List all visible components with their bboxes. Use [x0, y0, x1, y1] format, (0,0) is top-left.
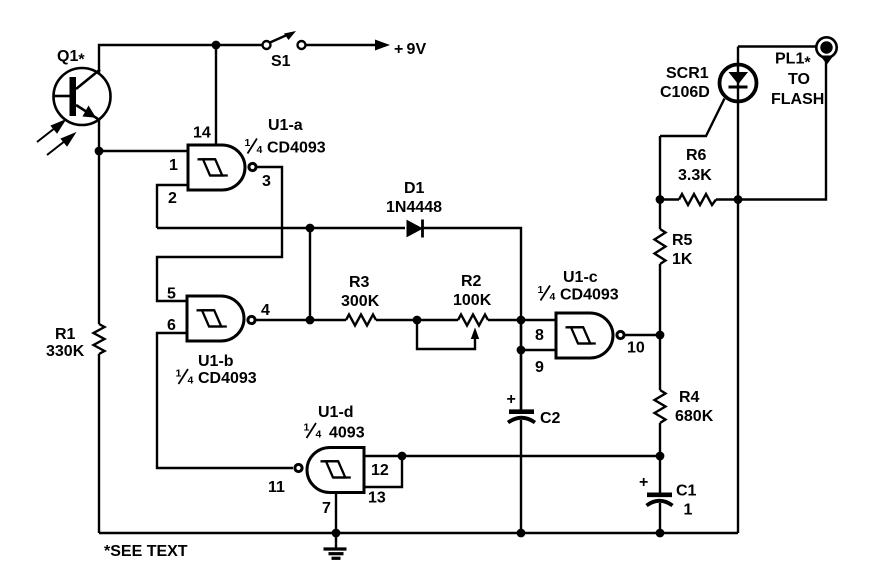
- svg-text:1N4448: 1N4448: [386, 199, 442, 216]
- svg-text:4: 4: [188, 375, 194, 387]
- svg-text:7: 7: [322, 500, 331, 517]
- svg-text:14: 14: [193, 125, 211, 142]
- wire: R3 to wiper node: [376, 319, 458, 321]
- svg-text:10: 10: [627, 340, 645, 357]
- svg-text:FLASH: FLASH: [771, 91, 824, 108]
- node: R6/R5 junction: [656, 195, 665, 204]
- wire: U1-d pin 7 to ground: [335, 493, 337, 550]
- wire: SCR anode to top: [737, 47, 739, 63]
- wire: vertical through C2 top: [520, 320, 522, 412]
- label 1/4 CD4093: [245, 137, 326, 157]
- svg-text:3.3K: 3.3K: [678, 167, 712, 184]
- op-amp U1-d (NAND gate, mirrored): [295, 448, 364, 493]
- svg-text:D1: D1: [404, 180, 425, 197]
- wire: C2 to bottom rail: [520, 420, 522, 533]
- svg-text:TO: TO: [788, 71, 810, 88]
- node: cathode/R6 junction: [734, 195, 743, 204]
- node: pin 8 junction: [517, 316, 526, 325]
- resistor R6: [679, 194, 716, 205]
- wire: node line to D1: [157, 227, 405, 229]
- svg-text:4: 4: [316, 429, 322, 441]
- hysteresis symbol U1-a: [198, 159, 228, 175]
- wire: pin 14 supply: [215, 45, 217, 144]
- potentiometer R2: [458, 315, 488, 326]
- svg-text:+ 9V: + 9V: [394, 41, 426, 58]
- hysteresis symbol U1-d: [321, 461, 351, 477]
- svg-text:R2: R2: [461, 273, 482, 290]
- svg-text:4: 4: [550, 291, 556, 303]
- svg-text:U1-d: U1-d: [318, 404, 354, 421]
- svg-text:U1-b: U1-b: [198, 353, 234, 370]
- wire: right mid vertical: [659, 136, 661, 229]
- switch S1 blade arrowhead: [284, 31, 296, 40]
- wire: emitter junction to U1-a pin 1: [99, 150, 188, 152]
- wire: R4 to C1: [659, 423, 661, 493]
- node: Q1 emitter junction: [95, 147, 104, 156]
- svg-text:2: 2: [168, 190, 177, 207]
- svg-text:1: 1: [176, 368, 182, 380]
- svg-text:1: 1: [169, 157, 178, 174]
- svg-text:R3: R3: [349, 274, 370, 291]
- svg-text:C1: C1: [676, 483, 697, 500]
- svg-text:R5: R5: [672, 232, 693, 249]
- wire: Q1 emitter down from circle: [98, 120, 100, 152]
- op-amp U1-b (NAND gate): [187, 296, 255, 341]
- node: C2 ground junction: [517, 529, 526, 538]
- wire: U1-b pin 6 feedback from U1-d output: [157, 333, 293, 468]
- svg-text:C2: C2: [540, 410, 561, 427]
- light arrow 2 into Q1: [47, 134, 74, 155]
- capacitor C1: [647, 495, 673, 506]
- label 1/4 CD4093 U1-b: [176, 368, 257, 388]
- svg-text:R6: R6: [686, 147, 707, 164]
- light arrow 1 into Q1: [37, 121, 64, 142]
- svg-text:11: 11: [268, 479, 285, 496]
- wire: pin 8: [521, 319, 556, 321]
- svg-text:1: 1: [245, 137, 251, 149]
- svg-text:S1: S1: [271, 53, 291, 70]
- wire: junction down to U1-b output: [309, 228, 311, 320]
- svg-text:CD4093: CD4093: [198, 370, 257, 387]
- resistor R3: [346, 315, 376, 326]
- wire: D1 cathode to right corner: [421, 228, 521, 412]
- op-amp U1-a (NAND gate): [188, 145, 256, 190]
- arrowhead R2 wiper: [471, 328, 479, 340]
- wire: R6 line left segment: [716, 198, 738, 200]
- svg-text:100K: 100K: [453, 292, 492, 309]
- wire: PL1 down to R6 line: [738, 58, 826, 200]
- node: C1 ground junction: [656, 529, 665, 538]
- node: U1-b output junction: [306, 316, 315, 325]
- svg-text:4: 4: [261, 302, 270, 319]
- svg-text:CD4093: CD4093: [267, 140, 326, 157]
- svg-text:U1-a: U1-a: [268, 117, 303, 134]
- wire: S1 to +9V: [306, 44, 378, 46]
- node: R4/C1 junction: [656, 452, 665, 461]
- svg-text:680K: 680K: [675, 408, 714, 425]
- hysteresis symbol U1-c: [566, 327, 596, 343]
- wire: R2 to vertical: [488, 319, 521, 321]
- svg-text:3: 3: [262, 173, 271, 190]
- resistor R4: [655, 390, 666, 423]
- thyristor SCR1: [720, 65, 757, 102]
- svg-text:13: 13: [368, 490, 386, 507]
- svg-text:12: 12: [371, 462, 389, 479]
- wire: U1-a output pin 3 feedback to pin 5: [157, 167, 282, 301]
- svg-text:1: 1: [538, 284, 544, 296]
- connector PL1: [816, 37, 836, 64]
- wire: R1 to bottom rail: [98, 354, 100, 533]
- resistor R5: [655, 229, 666, 264]
- svg-text:4093: 4093: [329, 425, 365, 442]
- svg-text:1: 1: [304, 422, 310, 434]
- node: pin 9 junction: [517, 346, 526, 355]
- wire: U1-b output to junction: [256, 319, 311, 321]
- node: wiper junction: [413, 316, 422, 325]
- wire: R2 wiper loop: [417, 320, 475, 349]
- wire: junction to R3: [310, 319, 346, 321]
- resistor R1: [94, 324, 105, 354]
- op-amp U1-c (NAND gate): [556, 313, 624, 358]
- wire: Q1 collector to top rail: [99, 45, 262, 73]
- label 1/4 4093: [304, 422, 365, 442]
- node: top rail junction: [212, 41, 221, 50]
- wire: pin 12 to R4 junction: [364, 455, 660, 457]
- transistor Q1: [54, 68, 111, 125]
- svg-text:R4: R4: [679, 389, 700, 406]
- wire: U1-c output pin 10: [625, 334, 661, 336]
- wire: U1-a pin 2: [157, 185, 188, 228]
- wire: U1-d pins 12-13 tie: [364, 456, 402, 487]
- wire: pin 9: [521, 349, 556, 351]
- ground: [324, 549, 347, 558]
- svg-text:6: 6: [167, 317, 176, 334]
- wire: bottom rail: [99, 532, 738, 534]
- wire: C1 to bottom rail: [659, 503, 661, 533]
- switch S1: [263, 35, 306, 50]
- svg-text:U1-c: U1-c: [563, 269, 598, 286]
- svg-text:9: 9: [535, 359, 544, 376]
- svg-text:C106D: C106D: [660, 84, 710, 101]
- wire: left rail down to R1: [98, 151, 100, 324]
- svg-text:1K: 1K: [672, 251, 693, 268]
- svg-text:+: +: [507, 391, 516, 408]
- capacitor C2: [508, 412, 535, 423]
- node: pins 12-13 junction: [398, 452, 407, 461]
- node: junction at 310,228: [306, 224, 315, 233]
- label 1/4 CD4093 U1-c: [538, 284, 619, 304]
- wire: SCR cathode down: [737, 62, 739, 533]
- wire: SCR gate lead: [660, 99, 725, 137]
- diode D1: [407, 220, 423, 238]
- hysteresis symbol U1-b: [197, 310, 227, 326]
- arrowhead +9V: [375, 40, 390, 51]
- svg-text:8: 8: [535, 327, 544, 344]
- svg-text:SCR1: SCR1: [666, 65, 709, 82]
- svg-text:*SEE TEXT: *SEE TEXT: [104, 543, 188, 560]
- svg-text:1: 1: [684, 502, 693, 519]
- svg-text:330K: 330K: [46, 343, 85, 360]
- svg-text:300K: 300K: [341, 293, 380, 310]
- svg-text:+: +: [639, 474, 648, 491]
- wire: R6 to left junction: [660, 198, 679, 200]
- node: pin 10 junction: [656, 331, 665, 340]
- wire: top right rail to PL1: [738, 45, 816, 47]
- svg-text:R1: R1: [55, 326, 76, 343]
- svg-text:CD4093: CD4093: [560, 287, 619, 304]
- node: pin 7 rail junction: [332, 529, 341, 538]
- svg-text:5: 5: [167, 286, 176, 303]
- svg-text:4: 4: [257, 144, 263, 156]
